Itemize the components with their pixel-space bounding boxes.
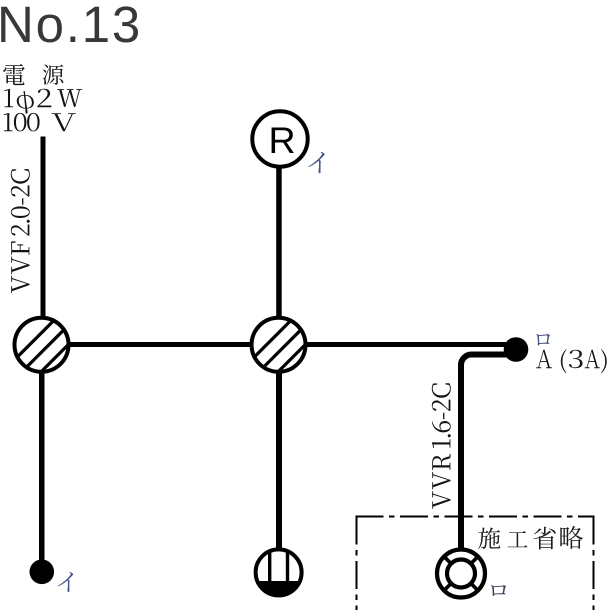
svg-text:No.13: No.13 (0, 0, 142, 53)
dash-dot boundary 施工省略 box (356, 517, 595, 610)
wire lamp receptacle R to junction box J2 (276, 168, 282, 321)
outdoor light ロ (circle with spokes) (437, 550, 485, 598)
horizontal wire J1 to J2 to automatic switch (44, 342, 507, 347)
single-pole switch イ (black dot) (30, 560, 55, 585)
label イ for switch (58, 572, 73, 592)
label ロ for outdoor light (491, 585, 506, 596)
label 施工省略 (478, 526, 583, 550)
wire VVR run: automatic switch to outdoor light (rounded corner) (461, 355, 512, 549)
wire J1 down to switch イ (39, 350, 45, 560)
wire from power source to junction box J1 (41, 137, 46, 322)
cable label VVF 2.0-2C (11, 169, 30, 293)
label A (3A) (536, 349, 607, 373)
wire J2 down to ceiling rose (276, 350, 282, 549)
label イ for lamp receptacle (308, 152, 324, 173)
automatic switch (black dot) (504, 337, 529, 362)
ceiling rose 引掛シーリング (イ) (256, 549, 302, 596)
power spec 1φ2W (4, 89, 82, 114)
svg-text:R: R (268, 119, 295, 161)
junction box J1 (hatched circle) (14, 318, 76, 380)
lamp receptacle R (イ) (252, 111, 307, 166)
power spec 100V (4, 113, 76, 131)
cable label VVR 1.6-2C (432, 383, 451, 509)
power source label 電源 (3, 64, 63, 85)
label ロ for automatic switch (536, 334, 550, 346)
junction box J2 (hatched circle) (251, 318, 313, 380)
